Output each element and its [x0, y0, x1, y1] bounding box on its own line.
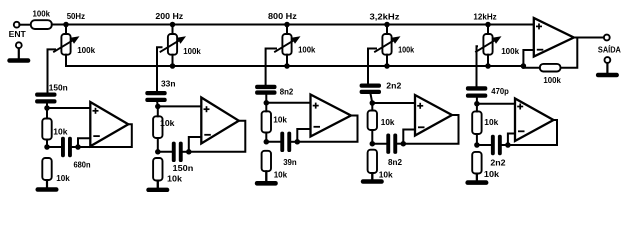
op-amp U6 (output mixer): [534, 18, 574, 57]
wire C21 to node: [156, 101, 159, 107]
svg-text:10k: 10k: [484, 117, 498, 127]
op-amp U5: [515, 99, 554, 142]
node band 4 non-inverting input: [370, 100, 376, 106]
node band 2 gyrator node: [155, 149, 161, 155]
svg-text:12kHz: 12kHz: [473, 12, 496, 22]
svg-text:10k: 10k: [273, 115, 287, 125]
potentiometer P5 wiper arrow: [475, 36, 501, 52]
wire P4 wiper to filter: [368, 49, 376, 85]
potentiometer P1 100k body: [61, 34, 70, 55]
svg-text:100k: 100k: [543, 75, 561, 85]
wire bus tap to potentiometer P1: [65, 25, 67, 35]
op-amp U3: [311, 95, 352, 137]
wire top bus (input to U6 + input): [52, 24, 535, 26]
wire R51 to lower node: [476, 134, 478, 145]
wire P2 bottom to lower bus: [172, 55, 174, 66]
potentiometer P1 wiper arrow: [53, 36, 79, 52]
svg-text:8n2: 8n2: [280, 86, 294, 96]
op-amp U1: [90, 102, 128, 146]
output ground terminal: [605, 57, 611, 63]
node band 4 inverting feedback junction: [401, 141, 407, 147]
wire P2 wiper to filter: [157, 47, 162, 92]
svg-text:2n2: 2n2: [490, 157, 505, 167]
wire node to R41: [371, 103, 373, 111]
wire bus tap to potentiometer P4: [386, 25, 388, 35]
wire lower bus to U6 - input: [522, 65, 524, 68]
wire U1 output feedback: [78, 124, 132, 147]
potentiometer P2 wiper arrow: [160, 36, 186, 52]
input ground terminal: [16, 42, 22, 48]
node band 5 non-inverting input: [474, 101, 480, 107]
potentiometer P5 100k body: [483, 34, 492, 55]
svg-text:10k: 10k: [53, 127, 67, 137]
svg-text:8n2: 8n2: [388, 157, 402, 167]
ground band 1: [36, 180, 59, 192]
ground band 5: [465, 174, 488, 185]
wire bus tap to potentiometer P3: [286, 25, 288, 35]
wire node to R21: [157, 106, 159, 116]
resistor R6 100k (U6 feedback): [540, 64, 561, 72]
potentiometer P3 100k body: [282, 34, 291, 55]
wire node to op-amp U4 + input: [372, 102, 416, 104]
svg-text:50Hz: 50Hz: [67, 11, 85, 21]
capacitor C42 8n2 plates: [386, 134, 397, 154]
svg-text:200 Hz: 200 Hz: [155, 11, 183, 21]
svg-text:2n2: 2n2: [386, 81, 401, 91]
resistor R32 10k (lower): [262, 151, 271, 171]
node P5 bottom on lower bus: [485, 63, 491, 69]
wire U4 output feedback: [403, 115, 458, 144]
wire C31 to node: [265, 93, 267, 102]
node band 1 inverting feedback junction: [75, 144, 81, 150]
wire P1 bottom to lower bus: [65, 55, 67, 66]
resistor R42 10k (lower): [368, 150, 377, 173]
capacitor C21 33n plates: [145, 91, 166, 102]
wire R42 to ground: [371, 173, 373, 179]
wire C41 to node: [370, 93, 372, 103]
svg-text:10k: 10k: [160, 118, 175, 128]
node band 5 gyrator node: [474, 142, 480, 148]
ground band 2: [146, 181, 169, 193]
resistor R0 100k (series input): [31, 20, 52, 29]
wire bus tap to potentiometer P2: [172, 25, 174, 35]
wire node to C12: [47, 146, 61, 148]
capacitor C32 39n plates: [280, 132, 291, 152]
wire U2 output feedback: [189, 121, 246, 152]
potentiometer P2 100k body: [168, 34, 177, 55]
capacitor C12 680n plates: [61, 137, 72, 157]
svg-text:100k: 100k: [183, 46, 201, 56]
wire R21 to lower node: [157, 138, 159, 152]
svg-text:ENT: ENT: [9, 29, 27, 39]
wire R6 to inverting node: [523, 67, 539, 69]
node P2 bottom on lower bus: [170, 63, 176, 69]
svg-text:33n: 33n: [161, 79, 176, 89]
wire P1 wiper to filter: [48, 49, 56, 93]
resistor R31 10k (upper): [262, 111, 271, 132]
wire C51 to node: [476, 97, 478, 104]
svg-text:100k: 100k: [501, 46, 519, 56]
svg-text:39n: 39n: [283, 157, 297, 167]
node band 2 inverting feedback junction: [186, 149, 192, 155]
op-amp U4: [415, 95, 452, 136]
node P4 bottom on lower bus: [384, 63, 390, 69]
wire node to op-amp U3 + input: [266, 102, 311, 104]
wire U3 - input to junction: [297, 129, 310, 142]
node lower bus / feedback junction: [521, 63, 527, 69]
op-amp U2: [201, 98, 239, 144]
ground (output): [596, 63, 619, 77]
wire R52 to ground: [476, 174, 478, 181]
wire C22 to feedback junction: [183, 151, 189, 153]
capacitor C41 2n2 plates: [360, 84, 381, 95]
svg-text:680n: 680n: [74, 160, 91, 170]
resistor R41 10k (upper): [368, 111, 377, 131]
wire U6 feedback from output: [561, 38, 577, 68]
capacitor C52 2n2 plates: [491, 135, 502, 155]
wire node to C22: [158, 151, 172, 153]
wire C52 to feedback junction: [502, 144, 508, 146]
svg-text:10k: 10k: [274, 169, 288, 179]
capacitor C51 470p plates: [466, 86, 487, 98]
wire node to R11: [46, 108, 48, 119]
wire node to op-amp U2 + input: [158, 105, 203, 107]
resistor R51 10k (upper): [472, 111, 481, 134]
wire U3 output feedback: [297, 116, 357, 142]
potentiometer P3 wiper arrow: [274, 36, 300, 52]
potentiometer P4 100k body: [382, 34, 391, 55]
resistor R52 10k (lower): [472, 152, 481, 174]
wire U5 - input to junction: [508, 134, 515, 146]
ground band 4: [361, 173, 384, 184]
wire bus tap to potentiometer P5: [487, 25, 489, 35]
capacitor C11 150n plates: [35, 93, 56, 104]
capacitor C31 8n2 plates: [255, 85, 276, 95]
node top bus tap band 2: [170, 22, 176, 28]
capacitor C22 150n plates: [172, 142, 183, 162]
svg-text:10k: 10k: [381, 117, 395, 127]
svg-text:100k: 100k: [33, 9, 51, 19]
wire R12 to ground: [46, 180, 48, 187]
wire U1 - input to junction: [78, 138, 90, 147]
node top bus tap band 3: [284, 22, 290, 28]
svg-text:100k: 100k: [77, 45, 95, 55]
svg-text:100k: 100k: [398, 44, 414, 54]
ground (input): [7, 48, 30, 63]
wire U4 - input to junction: [403, 130, 415, 144]
wire R31 to lower node: [265, 133, 267, 142]
potentiometer P4 wiper arrow: [374, 36, 400, 52]
resistor R22 10k (lower): [153, 158, 162, 181]
svg-text:800 Hz: 800 Hz: [268, 11, 297, 21]
wire node to C42: [372, 143, 386, 145]
wire node to C32: [266, 141, 280, 143]
wire C32 to feedback junction: [291, 141, 297, 143]
wire node to R51: [476, 104, 478, 112]
output terminal SAIDA: [604, 35, 610, 41]
svg-text:470p: 470p: [491, 86, 509, 96]
node P3 bottom on lower bus: [284, 63, 290, 69]
wire R22 to ground: [157, 181, 159, 188]
resistor R12 10k (lower): [42, 158, 51, 180]
svg-text:3,2kHz: 3,2kHz: [370, 12, 400, 22]
svg-text:150n: 150n: [49, 83, 68, 93]
svg-text:10k: 10k: [167, 173, 182, 183]
resistor R21 10k (upper): [153, 116, 162, 138]
svg-text:10k: 10k: [484, 169, 499, 179]
wire P4 bottom to lower bus: [386, 55, 388, 66]
node band 1 gyrator node: [44, 144, 50, 150]
wire P3 wiper to filter: [266, 49, 276, 86]
svg-text:SAÍDA: SAÍDA: [598, 44, 621, 54]
node band 2 non-inverting input: [155, 104, 161, 110]
wire C42 to feedback junction: [397, 143, 403, 145]
node band 3 inverting feedback junction: [295, 139, 301, 145]
wire node to op-amp U1 + input: [47, 107, 91, 109]
wire P3 bottom to lower bus: [286, 55, 288, 66]
input terminal ENT: [14, 22, 20, 28]
node top bus tap band 5: [485, 22, 491, 28]
svg-text:100k: 100k: [298, 44, 315, 54]
wire U6 output: [573, 37, 604, 39]
wire U5 output feedback: [508, 120, 557, 145]
wire node to C52: [477, 144, 491, 146]
ground band 3: [255, 171, 278, 185]
wire C11 to node: [46, 102, 48, 108]
svg-text:10k: 10k: [56, 173, 70, 183]
node band 3 gyrator node: [264, 139, 270, 145]
wire P5 bottom to lower bus: [487, 55, 489, 66]
node band 1 non-inverting input: [44, 105, 50, 111]
node band 3 non-inverting input: [264, 100, 270, 106]
node band 4 gyrator node: [370, 141, 376, 147]
svg-text:10k: 10k: [379, 169, 393, 179]
resistor R11 10k (upper): [42, 119, 51, 140]
wire R32 to ground: [265, 171, 267, 181]
wire node to R31: [265, 103, 267, 112]
node top bus tap band 1: [63, 22, 69, 28]
wire U2 - input to junction: [189, 137, 202, 152]
node band 5 inverting feedback junction: [505, 142, 511, 148]
wire lower bus (inverting bus): [66, 50, 535, 66]
wire node to op-amp U5 + input: [477, 103, 516, 105]
wire input terminal to R0: [19, 24, 30, 26]
svg-text:150n: 150n: [173, 163, 194, 173]
wire R41 to lower node: [371, 130, 373, 144]
wire C12 to feedback junction: [72, 146, 78, 148]
wire R11 to lower node: [46, 140, 48, 148]
wire P5 wiper to filter: [476, 46, 479, 87]
node top bus tap band 4: [384, 22, 390, 28]
